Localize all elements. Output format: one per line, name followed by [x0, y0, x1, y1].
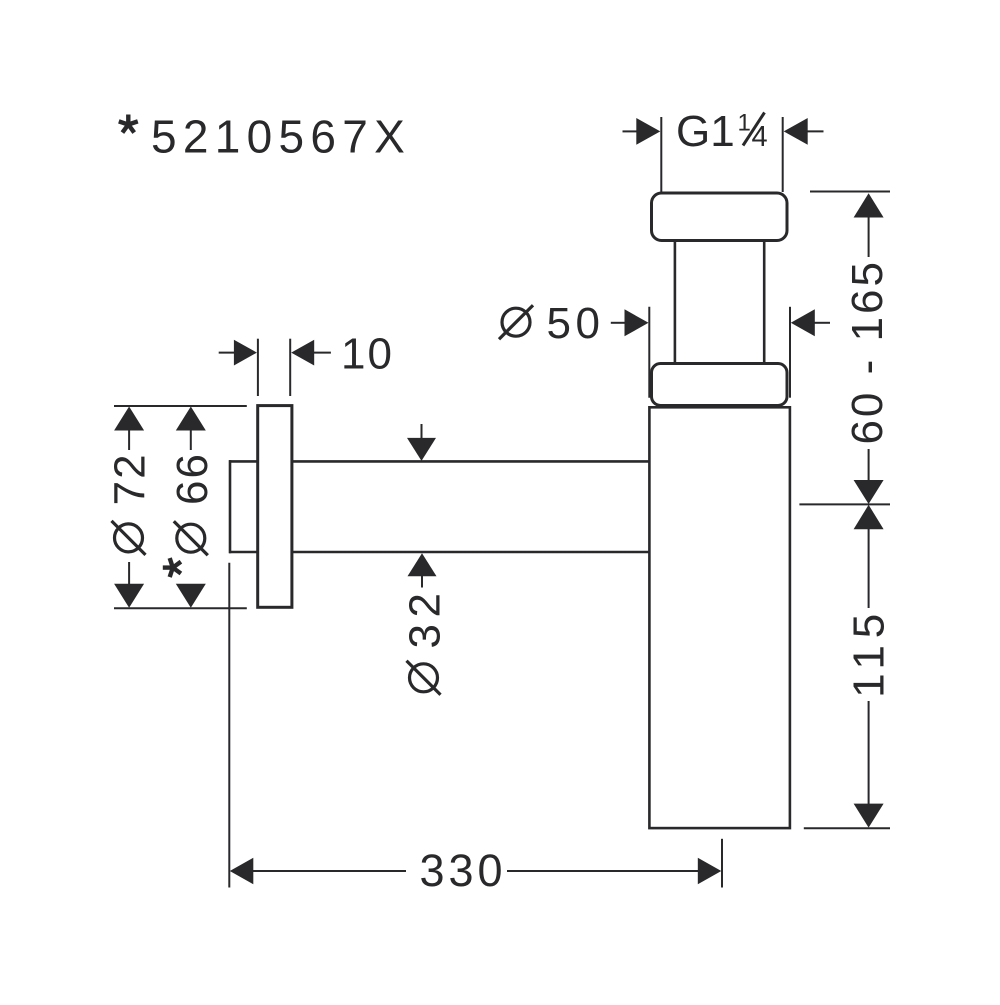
dim 115 line lower [868, 701, 870, 805]
arrow D66 up [176, 407, 206, 431]
svg-text:115: 115 [844, 607, 893, 698]
arrow 115 up [854, 505, 884, 530]
dim D72/D66 bottom tick [114, 607, 247, 609]
dim D50 leader right [814, 322, 830, 324]
dim 330 ext line left [228, 563, 230, 888]
dim D32 upper arrow stem [421, 424, 423, 440]
wire: pipe left end cap [229, 460, 232, 553]
arrow 60-165 down [854, 480, 884, 504]
dim G1 1/4 ext line left [660, 117, 662, 192]
wire: horizontal outlet pipe bottom line [229, 551, 649, 554]
vertical inlet pipe left line [674, 241, 677, 364]
arrow 330 right [698, 858, 722, 884]
dim 115 bottom tick [804, 827, 890, 829]
dim 115 line upper [868, 528, 870, 608]
label D72 (rotated) [106, 452, 155, 554]
arrow D72 up [114, 407, 144, 431]
arrow G1 1/4 left [636, 118, 660, 145]
arrow G1 1/4 right [784, 118, 808, 145]
label 60 - 165 (rotated) [843, 259, 892, 444]
arrow 10 right [291, 340, 314, 366]
label D50 diameter symbol [499, 305, 533, 339]
arrow 115 down [854, 804, 884, 828]
label part number asterisk [119, 115, 138, 133]
dim D72/D66 top tick [114, 405, 247, 407]
sliding flange [652, 364, 788, 406]
svg-text:32: 32 [401, 587, 450, 649]
arrow D50 right-pointing [625, 309, 649, 336]
dim 10 leader left [219, 352, 235, 354]
svg-text:1: 1 [738, 110, 751, 137]
dim 330 line right segment [507, 870, 699, 872]
svg-text:330: 330 [420, 845, 507, 896]
dim 10 ext line right [289, 339, 291, 396]
dim 60-165 line upper [868, 215, 870, 257]
dim G1 1/4 ext line right [782, 117, 784, 192]
dim junction tick [799, 503, 890, 505]
svg-text:5210567X: 5210567X [151, 111, 411, 163]
dim G1 1/4 leader right [807, 130, 824, 132]
dim 60-165 line lower [868, 449, 870, 482]
dim 330 line left segment [252, 870, 406, 872]
arrow 10 left [234, 340, 257, 366]
label D66 with asterisk (rotated) [163, 452, 217, 577]
svg-text:60 - 165: 60 - 165 [843, 259, 892, 444]
svg-text:66: 66 [168, 452, 217, 505]
arrow 330 left [230, 858, 254, 884]
dim D66 line lower [190, 584, 192, 587]
arrow D32 down at pipe top [407, 438, 436, 461]
label D32 (rotated) [401, 587, 450, 695]
arrow D66 down [176, 584, 206, 608]
dim D72 line upper [128, 429, 130, 450]
arrow 60-165 up [854, 193, 884, 217]
svg-text:50: 50 [547, 299, 605, 348]
svg-text:4: 4 [752, 121, 768, 153]
dim D32 lower arrow stem [421, 574, 423, 588]
dim 60-165 top tick [810, 191, 890, 193]
fraction slash [743, 113, 765, 146]
dim 10 leader right [314, 352, 331, 354]
svg-text:72: 72 [106, 452, 155, 505]
dim 10 ext line left [257, 339, 259, 396]
arrow D72 down [114, 584, 144, 608]
dim D50 leader left [611, 322, 626, 324]
arrow D32 up at pipe bottom [408, 553, 437, 576]
dim D66 line upper [190, 429, 192, 450]
top union nut [652, 193, 788, 241]
dim D72 line lower [128, 562, 130, 585]
wall flange plate [258, 406, 292, 608]
dim D50 ext line left [648, 307, 650, 398]
svg-text:G1: G1 [676, 107, 735, 156]
wire: horizontal outlet pipe top line [229, 460, 649, 463]
label 115 (rotated) [844, 607, 893, 698]
arrow D50 left-pointing [791, 309, 815, 336]
svg-text:10: 10 [341, 329, 394, 378]
dim 330 ext line right [721, 839, 723, 888]
dim G1 1/4 leader left [623, 130, 639, 132]
trap body [649, 407, 790, 828]
vertical inlet pipe right line [763, 241, 766, 364]
dim D50 ext line right [789, 307, 791, 398]
